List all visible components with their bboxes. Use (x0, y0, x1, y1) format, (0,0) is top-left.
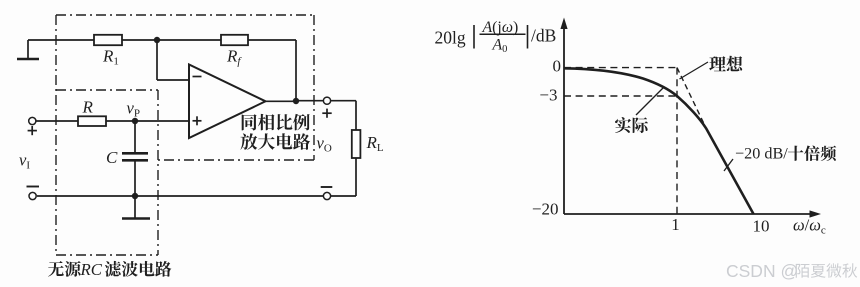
svg-text:−20: −20 (532, 199, 559, 218)
svg-text:RC: RC (80, 260, 103, 279)
svg-text:R: R (82, 98, 94, 117)
svg-text:C: C (106, 148, 118, 167)
svg-text:A(jω): A(jω) (482, 19, 519, 36)
svg-text:20lg: 20lg (435, 28, 466, 48)
svg-text:0: 0 (553, 56, 562, 75)
svg-text:CSDN @: CSDN @ (726, 261, 798, 281)
svg-text:1: 1 (671, 215, 680, 234)
svg-text:10: 10 (753, 217, 770, 236)
svg-text:−20 dB/: −20 dB/ (735, 145, 788, 163)
svg-text:−3: −3 (539, 85, 557, 104)
svg-text:/dB: /dB (531, 26, 556, 46)
